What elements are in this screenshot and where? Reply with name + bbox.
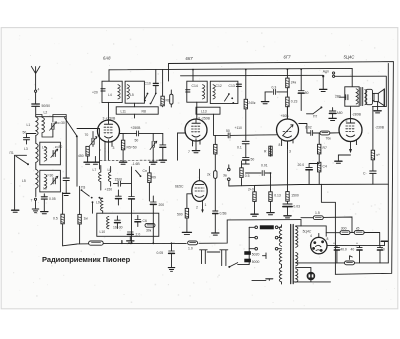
svg-text:450: 450 — [78, 154, 84, 158]
svg-text:50: 50 — [23, 131, 27, 135]
svg-text:2.0: 2.0 — [136, 233, 141, 237]
svg-text:П7: П7 — [313, 115, 317, 119]
svg-text:С14: С14 — [192, 84, 198, 88]
svg-text:50: 50 — [305, 91, 309, 95]
svg-text:L10: L10 — [100, 230, 106, 234]
svg-text:6Г7: 6Г7 — [284, 55, 292, 60]
svg-text:7: 7 — [188, 150, 190, 154]
svg-text:4: 4 — [38, 88, 40, 92]
svg-text:50: 50 — [251, 158, 255, 162]
svg-text:L13: L13 — [201, 110, 207, 114]
svg-text:П3: П3 — [81, 186, 85, 190]
svg-text:70к: 70к — [326, 137, 332, 141]
svg-text:0.5: 0.5 — [53, 217, 58, 221]
svg-text:24к: 24к — [291, 81, 297, 85]
svg-text:5020: 5020 — [252, 253, 260, 257]
svg-text:3: 3 — [289, 150, 291, 154]
svg-text:С12: С12 — [216, 84, 222, 88]
svg-text:3 +150В: 3 +150В — [103, 117, 116, 121]
svg-text:С4: С4 — [323, 165, 327, 169]
svg-text:7: 7 — [31, 199, 33, 203]
svg-text:Сн: Сн — [143, 169, 147, 173]
svg-text:1: 1 — [205, 203, 207, 207]
svg-text:к=30: к=30 — [58, 121, 65, 125]
svg-text:0.01: 0.01 — [261, 164, 268, 168]
svg-text:1500: 1500 — [291, 194, 299, 198]
svg-text:1: 1 — [356, 142, 358, 146]
svg-text:-230В: -230В — [375, 126, 385, 130]
svg-text:40.0: 40.0 — [340, 248, 347, 252]
svg-text:к+: к+ — [377, 153, 380, 157]
svg-text:к=30: к=30 — [46, 174, 53, 178]
svg-text:16+30: 16+30 — [113, 226, 123, 230]
svg-text:0.05: 0.05 — [49, 197, 56, 201]
svg-text:280: 280 — [335, 95, 341, 99]
svg-text:0.5: 0.5 — [245, 174, 250, 178]
svg-text:-280В: -280В — [352, 113, 362, 117]
svg-text:+250В: +250В — [131, 126, 142, 130]
svg-text:+: + — [333, 241, 335, 245]
svg-text:L4: L4 — [108, 93, 112, 97]
svg-text:4: 4 — [310, 234, 312, 238]
svg-text:6А8: 6А8 — [103, 56, 111, 61]
svg-text:0.5В: 0.5В — [220, 212, 228, 216]
svg-text:L4: L4 — [42, 146, 46, 150]
svg-text:2: 2 — [196, 206, 198, 210]
svg-text:50: 50 — [226, 129, 230, 133]
svg-text:40: 40 — [351, 248, 355, 252]
svg-text:+150: +150 — [105, 188, 113, 192]
svg-text:5000: 5000 — [252, 260, 260, 264]
svg-text:+: + — [356, 241, 358, 245]
svg-text:+50В: +50В — [281, 114, 290, 118]
svg-text:5Ц4С: 5Ц4С — [344, 55, 356, 60]
svg-text:70: 70 — [85, 133, 89, 137]
svg-text:к5: к5 — [356, 227, 359, 231]
svg-text:3 -250В: 3 -250В — [198, 117, 211, 121]
svg-text:L5: L5 — [22, 179, 26, 183]
svg-text:3: 3 — [113, 146, 115, 150]
svg-text:30к: 30к — [146, 229, 152, 233]
svg-text:8: 8 — [279, 143, 281, 147]
svg-text:+: + — [173, 242, 175, 246]
svg-text:6К7: 6К7 — [186, 56, 194, 61]
svg-text:5Ц4С: 5Ц4С — [303, 230, 312, 234]
svg-text:0.02: 0.02 — [305, 126, 312, 130]
svg-text:200: 200 — [159, 203, 165, 207]
svg-text:+20: +20 — [92, 91, 98, 95]
svg-text:к=80: к=80 — [55, 145, 62, 149]
svg-text:П1: П1 — [10, 151, 14, 155]
svg-text:R9: R9 — [152, 176, 156, 180]
svg-text:0.3: 0.3 — [272, 86, 277, 90]
svg-text:L11: L11 — [121, 110, 127, 114]
svg-text:0.03: 0.03 — [293, 205, 300, 209]
svg-text:0.13: 0.13 — [274, 194, 281, 198]
svg-text:1500: 1500 — [115, 178, 123, 182]
svg-text:6Е5С: 6Е5С — [175, 185, 184, 189]
svg-text:2к: 2к — [207, 173, 211, 177]
svg-text:L7: L7 — [93, 168, 97, 172]
svg-text:2+0: 2+0 — [248, 188, 254, 192]
svg-text:10: 10 — [381, 248, 385, 252]
svg-text:Радиоприемник Пионер: Радиоприемник Пионер — [42, 255, 131, 264]
svg-text:А80: А80 — [337, 111, 343, 115]
svg-text:С6: С6 — [143, 219, 147, 223]
svg-text:L1: L1 — [27, 123, 31, 127]
svg-text:+110: +110 — [235, 126, 242, 130]
svg-text:8: 8 — [327, 237, 329, 241]
svg-text:500: 500 — [177, 213, 183, 217]
svg-text:0.1: 0.1 — [237, 146, 242, 150]
svg-text:R8: R8 — [142, 110, 146, 114]
svg-text:7: 7 — [99, 149, 101, 153]
svg-text:L3: L3 — [24, 147, 28, 151]
svg-text:-1.6В: -1.6В — [132, 162, 141, 166]
svg-text:С13: С13 — [229, 84, 235, 88]
svg-text:50: 50 — [135, 139, 139, 143]
svg-text:Зв: Зв — [223, 174, 227, 178]
svg-text:L6: L6 — [43, 187, 47, 191]
svg-text:1м: 1м — [84, 217, 89, 221]
svg-text:L9: L9 — [96, 201, 100, 205]
svg-text:240к: 240к — [248, 101, 256, 105]
svg-text:1.5: 1.5 — [315, 211, 320, 215]
svg-text:R7: R7 — [323, 146, 327, 150]
svg-text:R5=50: R5=50 — [127, 146, 137, 150]
svg-text:L5: L5 — [130, 93, 134, 97]
svg-text:1.0: 1.0 — [188, 247, 193, 251]
svg-text:L8: L8 — [108, 168, 112, 172]
svg-text:0.05: 0.05 — [157, 251, 164, 255]
svg-text:R6: R6 — [166, 99, 170, 103]
svg-text:Адп: Адп — [323, 70, 329, 74]
svg-text:С10: С10 — [145, 82, 151, 86]
svg-text:С·: С· — [363, 172, 367, 176]
svg-text:5: 5 — [346, 119, 348, 123]
svg-text:0.23: 0.23 — [291, 100, 298, 104]
svg-text:L2: L2 — [44, 111, 48, 115]
svg-text:20.0: 20.0 — [298, 163, 305, 167]
svg-text:50/50: 50/50 — [42, 104, 51, 108]
svg-text:300: 300 — [341, 227, 347, 231]
